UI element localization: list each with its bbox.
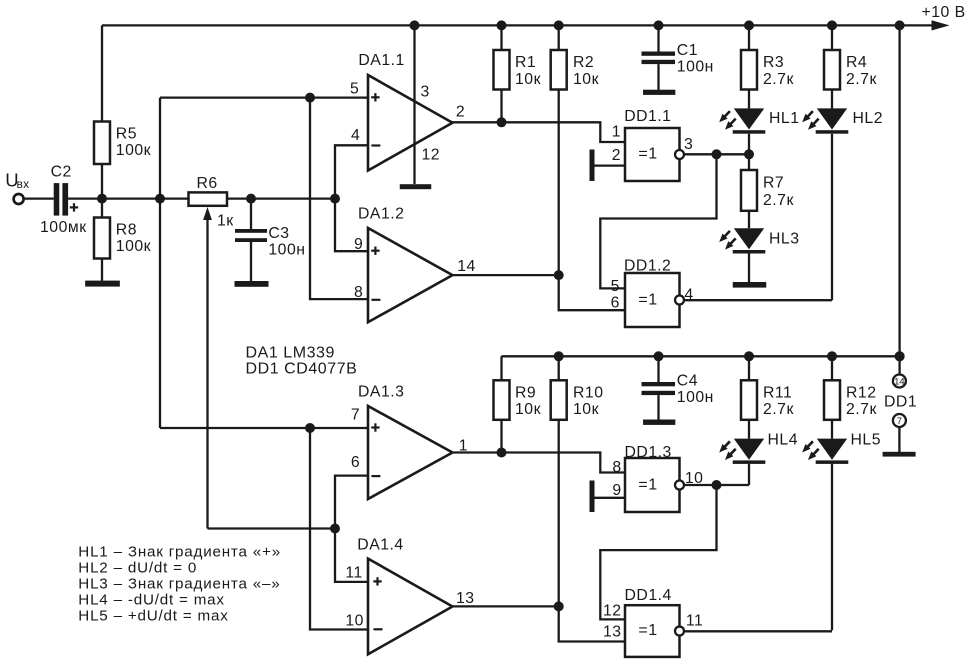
wire DD1 supply from rail: [898, 25, 900, 374]
svg-text:=1: =1: [638, 146, 657, 163]
junction DA1.4 output at R10: [554, 601, 564, 611]
svg-text:DA1.1: DA1.1: [358, 52, 404, 69]
svg-text:HL4: HL4: [768, 431, 798, 448]
junction lower rail at C4: [654, 351, 664, 361]
wire C2 to R6 (input node): [68, 197, 188, 199]
pin 6 label: [611, 294, 620, 311]
pin 8 label: [354, 284, 363, 301]
label R11: [763, 384, 792, 401]
svg-text:HL2: HL2: [853, 110, 883, 127]
svg-text:1: 1: [612, 124, 621, 141]
wire DD1.1 output pin 3: [684, 153, 749, 155]
svg-text:R2: R2: [573, 54, 594, 71]
svg-text:14: 14: [894, 376, 905, 387]
svg-text:R10: R10: [573, 384, 603, 401]
label C4: [677, 372, 698, 389]
junction node A lower: [305, 423, 315, 433]
XOR gate DD1.2: [625, 273, 684, 327]
pin 10 label: [685, 470, 704, 487]
DA1.4 plus sign: [373, 577, 381, 585]
svg-text:2.7к: 2.7к: [763, 401, 794, 418]
pin 12 label: [603, 603, 622, 620]
junction node R5/R8 on input wire: [97, 194, 107, 204]
power terminal arrow +10V: [932, 20, 950, 30]
common bar at DD1.3 pin 9: [590, 481, 626, 513]
svg-text:100н: 100н: [677, 58, 714, 75]
resistor R2: [551, 25, 567, 275]
pin 11 label: [686, 612, 703, 629]
junction on rail at C1: [654, 20, 664, 30]
svg-text:100мк: 100мк: [40, 219, 87, 236]
legend HL5 line: [78, 608, 228, 625]
wire node B to DA1.3 minus input pin 6: [335, 476, 368, 529]
svg-text:R4: R4: [846, 54, 867, 71]
ground under R8: [85, 281, 120, 287]
label R1: [515, 54, 536, 71]
pin 8 label: [612, 459, 621, 476]
pin 10 label: [345, 612, 364, 629]
svg-text:13: 13: [603, 624, 622, 641]
resistor R3: [741, 25, 757, 108]
resistor R12: [824, 356, 840, 438]
svg-text:6: 6: [611, 294, 620, 311]
wire input node vertical: [159, 98, 161, 428]
legend HL1 line: [78, 543, 281, 560]
op-amp DA1.2: [368, 228, 453, 322]
DD1 pin 7 number: [897, 416, 902, 427]
label DA1.3: [358, 383, 404, 400]
label R5: [116, 126, 137, 143]
svg-text:8: 8: [354, 284, 363, 301]
svg-text:DA1.4: DA1.4: [357, 536, 403, 553]
svg-text:100н: 100н: [677, 389, 714, 406]
pin 13 label: [456, 590, 475, 607]
svg-text:+10 В: +10 В: [922, 4, 966, 21]
svg-text:14: 14: [457, 258, 476, 275]
label R8: [116, 222, 137, 239]
wire +10V power rail: [102, 24, 940, 26]
wire node B to DA1.4 plus input pin 11: [335, 529, 368, 582]
label 100н (C1): [677, 58, 714, 75]
wire DD1.4 output pin 11 to HL5: [684, 630, 832, 632]
label DA1.4: [357, 536, 403, 553]
label Uвх: [5, 169, 29, 191]
svg-text:1к: 1к: [217, 212, 234, 229]
label DD1.1: [624, 108, 671, 125]
legend HL2 line: [78, 559, 197, 576]
label 100н (C4): [677, 389, 714, 406]
wire DD1.3 output to DD1.4 pin 12: [600, 485, 716, 619]
resistor R4: [824, 25, 840, 108]
svg-text:C3: C3: [268, 225, 289, 242]
pin 13 label: [603, 624, 622, 641]
label 100н (C3): [268, 241, 305, 258]
junction on rail at R4: [827, 20, 837, 30]
common bar at DD1.1 pin 2: [590, 150, 626, 182]
label DD1.3: [625, 444, 672, 461]
label R2: [573, 54, 594, 71]
pin 9 label: [612, 482, 621, 499]
label 100мк: [40, 219, 87, 236]
svg-text:DD1 CD4077B: DD1 CD4077B: [246, 360, 358, 377]
wire DA1.1 output pin 2 to DD1.1 pin 1: [453, 122, 626, 142]
label R12: [846, 384, 876, 401]
DD1 pin 7 circle: [893, 414, 906, 427]
svg-text:HL2 – dU/dt = 0: HL2 – dU/dt = 0: [78, 559, 197, 576]
wire DA1.1 minus pin 4 to main node to DA1.2 plus pin 9: [335, 145, 368, 251]
svg-text:R3: R3: [763, 54, 784, 71]
svg-text:C4: C4: [677, 372, 698, 389]
svg-text:=1: =1: [638, 622, 657, 639]
svg-text:DD1.3: DD1.3: [625, 444, 672, 461]
label R4: [846, 54, 867, 71]
ground under DA1.1: [400, 184, 432, 189]
wire input terminal to C2: [24, 197, 54, 199]
svg-text:7: 7: [897, 416, 902, 427]
junction on rail at R2: [554, 20, 564, 30]
label R9: [515, 384, 536, 401]
XOR gate DD1.1: [625, 128, 684, 181]
svg-text:DD1.2: DD1.2: [624, 257, 671, 274]
LED HL5: [802, 439, 848, 631]
wire R6 wiper to node B: [208, 527, 336, 529]
svg-text:DD1.1: DD1.1: [624, 108, 671, 125]
ground under HL3: [733, 282, 767, 288]
junction on rail at DD1 supply: [895, 20, 905, 30]
input terminal Uвх: [14, 194, 24, 204]
R6 wiper arrow: [203, 207, 212, 529]
label HL3: [769, 230, 799, 247]
label R6: [197, 175, 218, 192]
pin 11 label: [345, 565, 362, 582]
resistor R8: [94, 199, 110, 281]
label 1к (R6): [217, 212, 234, 229]
DA1.3 minus sign: [371, 475, 380, 477]
label +10 В: [922, 4, 966, 21]
svg-text:HL1 – Знак градиента «+»: HL1 – Знак градиента «+»: [78, 543, 281, 560]
pin 9 label: [354, 236, 363, 253]
label DA1.2: [358, 205, 404, 222]
svg-text:R8: R8: [116, 222, 137, 239]
pin 4 label: [351, 127, 360, 144]
wire DD1.2 output pin 4 to HL2: [684, 299, 832, 301]
label 2.7к (R7): [763, 192, 794, 209]
label DD1.2: [624, 257, 671, 274]
wire DD1.3 output pin 10 to HL4: [684, 484, 749, 486]
resistor R7: [741, 154, 757, 228]
svg-text:HL3: HL3: [769, 230, 799, 247]
LED HL1: [719, 108, 765, 154]
wire node A to DA1.2 minus input pin 8: [310, 98, 368, 300]
pin 3 label: [684, 136, 693, 153]
svg-text:HL3 – Знак градиента «–»: HL3 – Знак градиента «–»: [78, 576, 280, 593]
wire DA1.3 output pin 1 to DD1.3 pin 8: [453, 453, 626, 473]
wire input to DA1.1 plus input pin 5: [160, 96, 368, 98]
svg-text:11: 11: [345, 565, 362, 582]
svg-text:100к: 100к: [116, 238, 151, 255]
svg-text:R11: R11: [763, 384, 792, 401]
svg-text:6: 6: [351, 454, 360, 471]
junction DA1.3 output at R9: [497, 448, 507, 458]
label R7: [763, 175, 784, 192]
ground under C1: [643, 90, 675, 95]
svg-text:2.7к: 2.7к: [763, 71, 794, 88]
wire node A to DA1.4 minus input pin 10: [310, 428, 368, 630]
svg-text:C1: C1: [677, 42, 698, 59]
svg-text:8: 8: [612, 459, 621, 476]
pin 2 label: [612, 147, 621, 164]
junction C3 node: [246, 194, 256, 204]
junction DA1.2 output at R2: [554, 270, 564, 280]
pin 1 label: [612, 124, 621, 141]
svg-text:DD1: DD1: [884, 393, 917, 410]
svg-text:R7: R7: [763, 175, 784, 192]
capacitor C2: [54, 183, 68, 216]
svg-text:DA1.2: DA1.2: [358, 205, 404, 222]
junction DD1.3 output branch: [712, 480, 722, 490]
svg-text:R12: R12: [846, 384, 876, 401]
svg-text:DA1 LM339: DA1 LM339: [246, 344, 335, 361]
label DD1.4: [625, 587, 672, 604]
label 10к (R1): [515, 71, 541, 88]
junction node A upper: [305, 93, 315, 103]
svg-text:2.7к: 2.7к: [846, 71, 877, 88]
svg-text:7: 7: [351, 407, 360, 424]
label 10к (R2): [573, 71, 599, 88]
svg-text:2: 2: [612, 147, 621, 164]
wire input node to DA1.3 plus input pin 7: [160, 427, 368, 429]
DA1.1 minus sign: [371, 144, 380, 146]
pin 5 label: [350, 81, 359, 98]
svg-text:12: 12: [603, 603, 622, 620]
resistor R10: [551, 356, 567, 606]
label HL5: [851, 431, 881, 448]
svg-text:100н: 100н: [268, 241, 305, 258]
label C3: [268, 225, 289, 242]
junction DD1 supply at lower rail: [895, 351, 905, 361]
svg-text:=1: =1: [638, 292, 657, 309]
resistor R1: [494, 25, 510, 122]
svg-text:11: 11: [686, 612, 703, 629]
wire DA1.2 output pin 14 to DD1.2 pin 6: [453, 275, 626, 310]
label DA1 LM339: [246, 344, 335, 361]
junction on rail at R1: [497, 20, 507, 30]
svg-text:5: 5: [350, 81, 359, 98]
junction lower rail at R11: [744, 351, 754, 361]
resistor R11: [741, 356, 757, 438]
C2 polarity plus sign: [70, 203, 78, 211]
svg-text:DA1.3: DA1.3: [358, 383, 404, 400]
XOR gate DD1.3: [625, 458, 684, 512]
svg-text:DD1.4: DD1.4: [625, 587, 672, 604]
junction on rail at R3: [744, 20, 754, 30]
label C1: [677, 42, 698, 59]
svg-text:3: 3: [684, 136, 693, 153]
label HL2: [853, 110, 883, 127]
svg-text:9: 9: [354, 236, 363, 253]
XOR gate DD1.4: [625, 605, 684, 657]
DA1.2 plus sign: [371, 247, 379, 255]
pin 4 label: [684, 287, 693, 304]
svg-text:13: 13: [456, 590, 475, 607]
label 2.7к (R4): [846, 71, 877, 88]
label 10к (R9): [515, 401, 541, 418]
svg-text:100к: 100к: [116, 142, 151, 159]
ground under C4: [643, 420, 675, 425]
DD1.2 =1 label: [638, 292, 657, 309]
label DA1.1: [358, 52, 404, 69]
wire R6 to DA1.1 inverting node: [227, 197, 336, 199]
junction lower rail at R10: [554, 351, 564, 361]
op-amp DA1.3: [368, 406, 453, 499]
capacitor C4: [642, 356, 676, 419]
DA1.4 minus sign: [374, 628, 383, 630]
svg-text:=1: =1: [638, 477, 657, 494]
variable resistor R6: [189, 192, 228, 205]
label 10к (R10): [573, 401, 599, 418]
junction at R7 top: [744, 149, 754, 159]
label 2.7к (R12): [846, 401, 877, 418]
wire DD1.1 output to DD1.2 pin 5: [600, 154, 716, 288]
wire DD1 pin 7 to ground: [898, 427, 900, 452]
svg-text:вх: вх: [17, 177, 30, 191]
label C2: [51, 164, 72, 181]
pin 12 label: [422, 147, 441, 164]
label 2.7к (R11): [763, 401, 794, 418]
junction on rail at DA1.1 supply: [410, 20, 420, 30]
svg-text:R9: R9: [515, 384, 536, 401]
wire DA1.4 output pin 13 to DD1.4 pin 13: [453, 606, 626, 641]
svg-text:4: 4: [351, 127, 360, 144]
label HL4: [768, 431, 798, 448]
DD1.3 =1 label: [638, 477, 657, 494]
label DD1: [884, 393, 917, 410]
junction node B: [330, 524, 340, 534]
svg-text:HL5: HL5: [851, 431, 881, 448]
label 100к (R8): [116, 238, 151, 255]
junction lower rail at R12: [827, 351, 837, 361]
junction input node at vertical to comparators: [155, 194, 165, 204]
DD1 pin 14 circle: [893, 375, 906, 388]
svg-text:10к: 10к: [515, 401, 541, 418]
svg-text:12: 12: [422, 147, 441, 164]
op-amp DA1.1: [368, 75, 453, 171]
LED HL4: [719, 439, 765, 485]
svg-text:10к: 10к: [515, 71, 541, 88]
svg-text:5: 5: [611, 278, 620, 295]
junction main node at DA1.1 minus branch: [330, 194, 340, 204]
junction DD1.1 output branch: [712, 149, 722, 159]
svg-text:10к: 10к: [573, 401, 599, 418]
legend HL4 line: [78, 592, 225, 609]
ground under C3: [235, 281, 269, 287]
label 2.7к (R3): [763, 71, 794, 88]
capacitor C1: [642, 25, 676, 90]
svg-text:R5: R5: [116, 126, 137, 143]
label DD1 CD4077B: [246, 360, 358, 377]
svg-text:10: 10: [345, 612, 364, 629]
pin 3 label: [421, 84, 430, 101]
DA1.2 minus sign: [371, 299, 380, 301]
svg-text:HL5 – +dU/dt = max: HL5 – +dU/dt = max: [78, 608, 228, 625]
legend HL3 line: [78, 576, 280, 593]
junction lower rail at DD1 supply line: [895, 351, 905, 361]
svg-text:R6: R6: [197, 175, 218, 192]
LED HL3: [719, 228, 765, 282]
capacitor C3: [235, 199, 267, 282]
svg-text:2.7к: 2.7к: [846, 401, 877, 418]
resistor R5: [94, 25, 110, 198]
junction DA1.1 output at R1: [497, 117, 507, 127]
svg-text:2.7к: 2.7к: [763, 192, 794, 209]
svg-text:10к: 10к: [573, 71, 599, 88]
pin 5 label: [611, 278, 620, 295]
DA1.3 plus sign: [371, 423, 379, 431]
svg-text:HL1: HL1: [769, 110, 799, 127]
DD1.4 =1 label: [638, 622, 657, 639]
pin 14 label: [457, 258, 476, 275]
DA1.1 supply wire pin 3: [413, 25, 415, 184]
op-amp DA1.4: [368, 559, 453, 655]
svg-text:C2: C2: [51, 164, 72, 181]
label R3: [763, 54, 784, 71]
DA1.1 plus sign: [371, 93, 379, 101]
label 100к (R5): [116, 142, 151, 159]
ground under DD1 pin 7: [883, 452, 916, 457]
resistor R9: [494, 356, 510, 452]
pin 1 label: [459, 438, 468, 455]
wire lower +10V rail: [502, 355, 900, 357]
label HL1: [769, 110, 799, 127]
pin 2 label: [456, 104, 465, 121]
pin 7 label: [351, 407, 360, 424]
LED HL2: [802, 108, 848, 300]
pin 6 label: [351, 454, 360, 471]
svg-text:HL4 – -dU/dt = max: HL4 – -dU/dt = max: [78, 592, 225, 609]
svg-text:R1: R1: [515, 54, 536, 71]
svg-text:2: 2: [456, 104, 465, 121]
DD1.1 =1 label: [638, 146, 657, 163]
svg-text:3: 3: [421, 84, 430, 101]
label R10: [573, 384, 603, 401]
